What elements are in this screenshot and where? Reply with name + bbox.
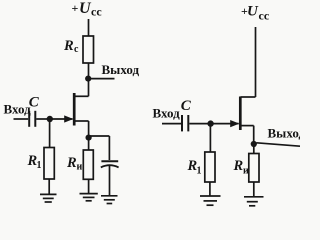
svg-text:cc: cc	[259, 9, 270, 23]
svg-text:R: R	[233, 158, 244, 174]
svg-text:и: и	[243, 165, 249, 176]
svg-text:cc: cc	[91, 5, 102, 19]
svg-text:C: C	[181, 98, 192, 114]
svg-text:U: U	[247, 4, 259, 20]
svg-text:R: R	[66, 155, 77, 171]
svg-text:R: R	[63, 38, 74, 54]
svg-text:Вход: Вход	[4, 102, 32, 117]
svg-text:и: и	[77, 162, 83, 173]
svg-text:с: с	[74, 44, 79, 55]
svg-text:1: 1	[37, 160, 42, 171]
svg-text:1: 1	[197, 166, 202, 177]
svg-text:Выход: Выход	[268, 126, 301, 141]
svg-text:+: +	[72, 1, 79, 15]
svg-text:Выход: Выход	[102, 62, 140, 77]
svg-text:Вход: Вход	[153, 106, 181, 121]
svg-text:C: C	[29, 95, 40, 111]
